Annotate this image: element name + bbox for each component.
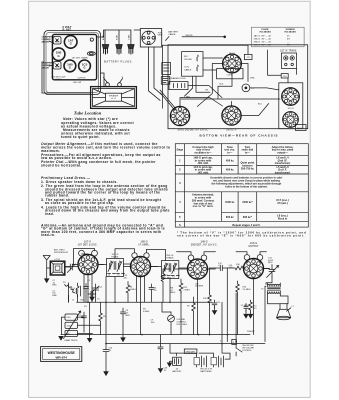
svg-text:REAR TRIM’G: REAR TRIM’G — [65, 339, 78, 342]
lead tag labels — [186, 77, 263, 105]
svg-text:100 MMF.: 100 MMF. — [195, 286, 204, 288]
R.F. choke and coil cable box — [182, 52, 203, 77]
ground under C15 R15 — [243, 314, 249, 319]
wire to 2nd IF — [197, 64, 222, 107]
battery hookup wires — [177, 335, 246, 360]
rear trimmer switch box 2 — [65, 322, 78, 328]
svg-text:YELLOW: YELLOW — [73, 82, 81, 84]
svg-text:2ND DET., A.F. & A.V.C.: 2ND DET., A.F. & A.V.C. — [191, 243, 218, 246]
svg-text:1H5-G 2ND DET. A.F. & A.V.C.: 1H5-G 2ND DET. A.F. & A.V.C. — [177, 129, 209, 132]
svg-text:output—: output— — [277, 150, 288, 154]
wires oscillator section — [69, 249, 96, 303]
capacitor C13 label — [229, 265, 234, 269]
dial lamp oval — [87, 52, 95, 56]
svg-text:to—: to— — [227, 150, 232, 154]
field coil tag box — [296, 125, 307, 131]
svg-text:BATTERY: BATTERY — [168, 31, 178, 34]
svg-text:1C5-G: 1C5-G — [254, 44, 261, 46]
svg-text:BATTERIES: BATTERIES — [201, 370, 213, 373]
svg-text:.001 mfd.: .001 mfd. — [197, 161, 209, 165]
wire bus to battery plugs — [97, 30, 131, 45]
label speaker plug — [169, 77, 186, 80]
svg-text:TRIM: TRIM — [55, 42, 60, 44]
svg-text:ABOVE: ABOVE — [42, 66, 50, 69]
junction tag 2 — [220, 341, 222, 343]
capacitor C4 — [88, 292, 96, 297]
svg-text:transformer): transformer) — [275, 161, 291, 165]
wire loop to bottom view — [42, 62, 104, 93]
socket V4 1C5-G (bottom view) — [282, 88, 300, 106]
capacitor C10 box — [281, 74, 288, 78]
antenna — [43, 256, 50, 269]
hookup wire chassis run — [181, 98, 280, 100]
hookup wire black — [218, 73, 232, 98]
A battery — [173, 357, 182, 365]
gang condenser box left — [162, 63, 171, 75]
svg-text:C5 (ant.): C5 (ant.) — [277, 201, 288, 205]
1st IF transformer T1 — [111, 254, 119, 258]
plate bypass R16 — [236, 281, 240, 295]
label battery cable — [168, 31, 178, 37]
svg-text:1500 kc*: 1500 kc* — [242, 200, 252, 204]
oscillator trimmer box lower — [53, 62, 61, 69]
wire from plugs to speaker socket — [134, 29, 140, 31]
svg-text:TRANS.: TRANS. — [166, 257, 174, 260]
svg-text:L5: L5 — [118, 275, 120, 277]
screen resistor R6 — [126, 282, 130, 303]
tube V3 1H5-G — [188, 259, 208, 279]
svg-text:1N5-G I.F.: 1N5-G I.F. — [226, 130, 237, 132]
grid resistor R14 — [233, 266, 245, 270]
capacitor C5 label — [97, 298, 100, 300]
ground stub at filament bus left — [89, 335, 91, 338]
tube V1 1A7-G (top view) — [64, 36, 77, 49]
bottom view chassis box — [91, 87, 137, 109]
svg-text:45*: 45* — [287, 38, 290, 40]
alignment chart grid — [175, 144, 308, 227]
ground below C16 — [103, 371, 109, 376]
svg-text:1N5-G: 1N5-G — [254, 38, 261, 40]
capacitor C3 — [84, 284, 89, 292]
oscillator coil L8 — [76, 283, 81, 297]
tube V2 1N5-G — [131, 257, 151, 277]
chamfered corner note (lower) — [42, 61, 56, 69]
label yellow lead — [73, 82, 81, 84]
svg-text:FIELD: FIELD — [297, 128, 303, 130]
svg-text:456 kc: 456 kc — [226, 168, 234, 172]
svg-text:R13 1 MEG.: R13 1 MEG. — [177, 324, 188, 326]
loop antenna outline around chassis — [44, 31, 101, 95]
avc resistor R7 — [161, 269, 170, 302]
resistor R5 — [99, 310, 103, 324]
socket V1 1A7-G (bottom view) — [223, 54, 242, 73]
junction dots — [87, 302, 237, 345]
nameplate WESTINGHOUSE WR-674 — [41, 347, 82, 362]
speaker plug (bottom view) — [169, 82, 188, 90]
vertical drop wires — [69, 268, 273, 344]
label 2nd det af avc — [51, 76, 66, 81]
svg-text:1500: 1500 — [67, 325, 71, 327]
tube V3 1H5-G (top view) — [64, 60, 76, 72]
svg-text:G: G — [83, 66, 85, 70]
speaker plug socket (top right) — [140, 29, 161, 47]
svg-text:R9: R9 — [187, 305, 189, 307]
output stage shield box — [279, 83, 303, 129]
rear trimmer switch box 3 — [65, 330, 78, 336]
tone capacitor C7 — [82, 312, 87, 328]
wire chassis top edge — [162, 44, 248, 46]
svg-text:1A7-G: 1A7-G — [254, 34, 261, 37]
svg-text:VOLTAGES: VOLTAGES — [284, 31, 296, 34]
svg-text:lead.: lead. — [45, 212, 54, 216]
antenna trimmer box upper — [53, 37, 61, 44]
svg-text:I.F. AMPL.: I.F. AMPL. — [138, 243, 150, 246]
B battery 2 — [214, 356, 224, 367]
label 1st IF trans — [280, 49, 297, 52]
svg-text:L2: L2 — [72, 300, 74, 302]
svg-text:CONTROL: CONTROL — [242, 350, 253, 352]
svg-text:85*......45: 85*......45 — [262, 35, 272, 37]
junction tag 3 boxed — [232, 339, 237, 344]
svg-text:G: G — [70, 42, 72, 46]
svg-text:A-BAT.: A-BAT. — [102, 34, 105, 40]
svg-text:2 MEG: 2 MEG — [184, 289, 191, 291]
svg-text:Rock in: Rock in — [278, 216, 288, 220]
svg-text:SPEAKER: SPEAKER — [109, 95, 119, 98]
svg-text:100: 100 — [124, 277, 127, 279]
svg-text:SUPPRESSOR: SUPPRESSOR — [54, 252, 68, 254]
ground below antenna — [46, 268, 48, 278]
label 1st det trans — [72, 56, 89, 59]
gang tuning capacitor C1 — [65, 264, 76, 273]
ground at filament bus left end — [58, 336, 64, 341]
connecting wires — [180, 45, 297, 115]
trimmer adjust arrow — [64, 311, 81, 339]
svg-text:B. BAT.: B. BAT. — [63, 28, 72, 32]
svg-text:85*: 85* — [287, 44, 290, 46]
filament bus — [61, 334, 250, 336]
wire white lead — [166, 37, 225, 41]
on-off switch S1 — [236, 348, 242, 356]
socket V2 1N5-G (bottom view) — [222, 106, 241, 125]
label 6-volt battery cable — [63, 25, 72, 32]
twisted pair to chassis — [160, 90, 176, 111]
svg-text:dressed down to the chassis an: dressed down to the chassis and away fro… — [45, 209, 170, 213]
svg-text:PLATE: PLATE — [261, 28, 269, 31]
padder capacitor C17 — [92, 284, 99, 294]
capacitor C19 label — [124, 275, 127, 279]
label wire tags above plugs — [102, 34, 131, 40]
tube V2 1N5-G (top view) — [52, 48, 65, 61]
svg-text:2 MEG: 2 MEG — [165, 277, 171, 279]
svg-text:G: G — [58, 54, 60, 58]
svg-text:transformer): transformer) — [275, 170, 291, 174]
loop antenna L1 — [50, 261, 65, 275]
ground stub mid — [158, 335, 163, 368]
svg-text:1 MEG: 1 MEG — [130, 289, 136, 291]
detector resistor R9 — [192, 297, 196, 335]
wire left cable run — [162, 45, 164, 108]
caption bottom view rear of chassis — [199, 134, 278, 138]
1st IF transformer can — [281, 53, 296, 68]
antenna lead terminal box — [161, 77, 170, 85]
svg-text:MFD.: MFD. — [268, 262, 273, 264]
capacitor C16 — [103, 344, 109, 372]
wire speaker socket to chassis wiring — [149, 47, 162, 101]
resistor R3 label — [84, 306, 87, 308]
svg-text:550-750 kc: 550-750 kc — [241, 166, 255, 170]
svg-text:BATTERY PLUGS: BATTERY PLUGS — [104, 59, 132, 63]
svg-text:1ST DET. & OSC.: 1ST DET. & OSC. — [78, 243, 98, 246]
svg-text:WHITE: WHITE — [186, 35, 194, 37]
svg-text:C-BAT.: C-BAT. — [128, 34, 131, 40]
chamfered corner note (upper) — [42, 35, 56, 43]
B battery 1 — [197, 356, 207, 367]
tube V4 1C5-G (top view) — [79, 60, 91, 72]
svg-text:MFD.: MFD. — [126, 315, 131, 317]
lead tag GRN-WHT — [184, 349, 197, 353]
schematic drawing number — [247, 331, 256, 333]
speaker LS — [268, 294, 289, 304]
svg-text:COIL: COIL — [184, 67, 190, 69]
socket V3 1H5-G (bottom view) — [170, 106, 189, 125]
capacitor C9 box — [244, 54, 252, 59]
ground under detector cathode — [89, 297, 95, 302]
output transformer T3 — [268, 283, 281, 294]
tube stage titles — [78, 240, 260, 248]
svg-text:600 kc: 600 kc — [226, 215, 234, 219]
svg-text:more than 100 feet, connect a: more than 100 feet, connect a 360 MMF ca… — [41, 230, 161, 234]
svg-text:one corner of the bar “E” is “: one corner of the bar “E” is “600” for 6… — [177, 234, 305, 238]
svg-text:MEG.: MEG. — [171, 292, 177, 294]
svg-text:VIEW: VIEW — [158, 35, 163, 37]
grid cap leads V3 — [177, 252, 216, 255]
battery plug B — [116, 45, 122, 49]
loop frame below socket V1 — [217, 69, 243, 79]
svg-text:TRIM: TRIM — [55, 67, 60, 69]
svg-text:oscillator to—: oscillator to— — [194, 150, 212, 154]
bypass capacitor C6 — [149, 284, 154, 302]
svg-text:BATTERY: BATTERY — [172, 370, 182, 373]
svg-text:holes in the bottom of the cab: holes in the bottom of the cabinet. — [225, 185, 268, 189]
svg-text:G: G — [69, 66, 71, 70]
svg-text:ABOVE: ABOVE — [42, 40, 50, 43]
svg-text:BLU.: BLU. — [258, 103, 263, 105]
svg-text:1C5-G: 1C5-G — [287, 108, 294, 110]
voltage table box — [252, 27, 305, 47]
svg-text:MMF.: MMF. — [52, 295, 57, 297]
avc filter R10 C11 — [208, 293, 217, 308]
svg-text:OSC.: OSC. — [67, 317, 72, 319]
socket holes on bottom view — [106, 83, 110, 87]
svg-text:OUTPUT: OUTPUT — [248, 245, 259, 248]
svg-text:L6: L6 — [173, 277, 175, 279]
tube V1 1A7-G — [78, 255, 98, 275]
capacitor C4a label — [52, 290, 57, 296]
capacitor C10 label — [195, 283, 204, 287]
diode load resistor R12 — [179, 279, 183, 293]
svg-text:3.3 MEG.: 3.3 MEG. — [243, 289, 252, 291]
svg-text:1A7-G: 1A7-G — [229, 52, 236, 55]
tube V4 1C5-G — [244, 259, 264, 279]
ground arrow mid bus — [122, 335, 124, 338]
label battery plugs — [104, 59, 132, 63]
svg-text:WR-674: WR-674 — [56, 355, 68, 359]
svg-text:456 kc: 456 kc — [226, 158, 234, 162]
svg-text:1H5-G: 1H5-G — [254, 41, 261, 43]
svg-text:45*......32: 45*......32 — [262, 41, 272, 43]
svg-text:MFD.: MFD. — [52, 285, 57, 287]
footnote under table — [177, 230, 306, 237]
resistor R8 label — [171, 287, 177, 294]
svg-text:.001 mfd.: .001 mfd. — [197, 170, 209, 174]
grid cap small circle — [90, 38, 93, 41]
label output — [77, 77, 86, 79]
coupling capacitor C12 — [215, 265, 227, 271]
svg-text:3 MEG.: 3 MEG. — [143, 311, 150, 313]
capacitor C9a label — [151, 320, 156, 324]
svg-text:meter across the voice coil, a: meter across the voice coil, and turn th… — [41, 146, 170, 150]
svg-text:BLK.: BLK. — [220, 83, 225, 85]
battery plug C — [128, 45, 134, 49]
svg-text:B AVC: B AVC — [56, 78, 62, 81]
svg-text:.05: .05 — [154, 290, 157, 292]
label C3 value — [88, 280, 90, 282]
svg-text:GRN.: GRN. — [250, 77, 255, 79]
svg-text:Tube Location: Tube Location — [74, 110, 102, 115]
grid cap leads V4 — [236, 252, 267, 255]
svg-text:to—: to— — [245, 150, 250, 154]
svg-text:B-BAT.: B-BAT. — [116, 34, 119, 40]
svg-text:LOOP: LOOP — [55, 259, 61, 261]
ground under avc capacitor C11 — [212, 310, 218, 315]
svg-text:1ST DET. TRANS.: 1ST DET. TRANS. — [72, 56, 89, 59]
chassis box (top view) — [52, 34, 96, 79]
signal bus wires — [64, 264, 233, 268]
svg-text:should be horizontal.: should be horizontal. — [41, 163, 82, 167]
svg-text:A · B: A · B — [111, 97, 116, 100]
svg-text:YEL.: YEL. — [205, 89, 210, 91]
svg-text:CHOKE: CHOKE — [184, 59, 192, 61]
resistor R1 — [65, 285, 75, 293]
svg-text:VOLTAGES: VOLTAGES — [259, 31, 271, 34]
svg-text:SPEAKER PLUG: SPEAKER PLUG — [169, 77, 186, 80]
svg-text:Repeat stages 4 and 5.: Repeat stages 4 and 5. — [232, 223, 260, 227]
label L2 osc — [72, 300, 85, 302]
svg-text:600 kc*: 600 kc* — [243, 215, 252, 219]
volume control R13 — [168, 315, 175, 322]
svg-text:1500 kc: 1500 kc — [225, 200, 235, 204]
hookup wire yellow — [185, 76, 211, 96]
svg-text:600: 600 — [67, 334, 70, 336]
capacitor C8 — [121, 308, 126, 335]
battery plug A — [102, 45, 108, 49]
svg-text:tuned to quiet point.: tuned to quiet point. — [61, 135, 100, 139]
resistor R15 and capacitor C15 — [244, 300, 253, 312]
svg-text:85*......45: 85*......45 — [262, 38, 272, 40]
rear trimmer switch box 1 — [65, 314, 78, 320]
svg-text:OUTPUT: OUTPUT — [77, 77, 86, 79]
svg-text:lead-in.: lead-in. — [41, 233, 55, 237]
coil L2 — [242, 84, 250, 92]
svg-text:BOTTOM VIEW—REAR OF CHASSIS: BOTTOM VIEW—REAR OF CHASSIS — [199, 134, 278, 138]
svg-text:CABLE: CABLE — [168, 33, 176, 36]
2nd IF transformer T2 — [166, 255, 174, 259]
caption Tube Location — [74, 110, 102, 115]
socket V5 rectifier (bottom view) — [283, 112, 299, 128]
plate supply bus — [77, 301, 213, 303]
svg-text:L3: L3 — [108, 275, 110, 277]
svg-text:T-5684-2: T-5684-2 — [247, 331, 256, 333]
svg-text:osc. to “G” term.: osc. to “G” term. — [193, 204, 214, 208]
svg-text:1ST I.F. TRANS.: 1ST I.F. TRANS. — [280, 49, 297, 52]
capacitor C2 label — [52, 280, 57, 286]
B minus bus — [106, 343, 265, 345]
capacitor C14 — [268, 258, 274, 264]
speaker magnet rect inside bottom view — [106, 93, 122, 101]
svg-text:RED: RED — [186, 96, 191, 98]
wires trimmer cluster — [62, 302, 101, 334]
svg-text:83*......85: 83*......85 — [262, 44, 272, 46]
svg-text:Stage: Stage — [177, 149, 184, 152]
resistor R9 label — [143, 309, 150, 313]
grid cap leads V2 — [115, 249, 165, 261]
chassis outline bottom view — [168, 45, 308, 129]
hookup wire green — [211, 64, 249, 107]
svg-text:R.F.: R.F. — [184, 56, 188, 58]
svg-text:CABLE: CABLE — [184, 68, 192, 71]
